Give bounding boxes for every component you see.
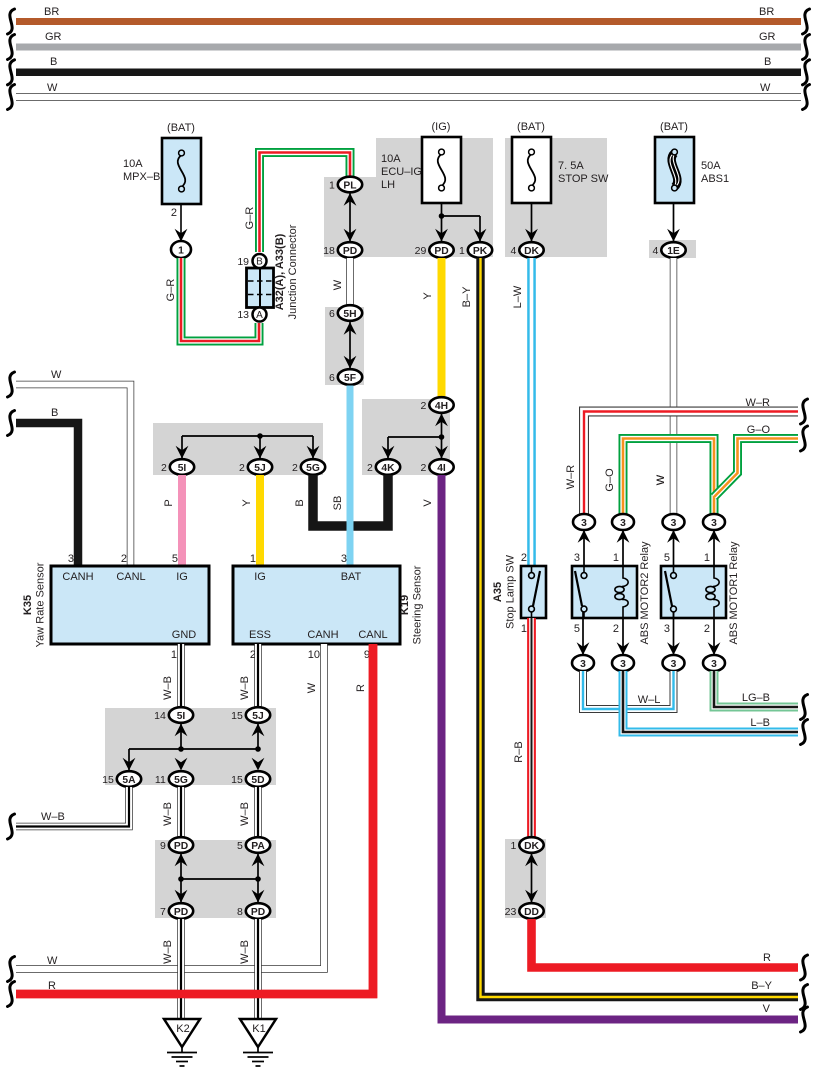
svg-text:B: B bbox=[294, 499, 306, 506]
svg-text:B–Y: B–Y bbox=[461, 286, 473, 307]
gray block PD PA bbox=[155, 840, 276, 918]
svg-text:ESS: ESS bbox=[249, 629, 271, 641]
svg-text:G–O: G–O bbox=[604, 468, 616, 492]
wire 5I-5J-5G internal bbox=[182, 435, 313, 437]
svg-text:1: 1 bbox=[250, 553, 256, 565]
component ABS MOTOR1 Relay bbox=[661, 566, 726, 618]
svg-text:1: 1 bbox=[704, 552, 710, 564]
svg-text:29: 29 bbox=[415, 245, 427, 257]
wire LG-B d right bbox=[714, 671, 798, 707]
gray block ECU-IG bbox=[324, 138, 493, 257]
wire G-R lower bbox=[181, 258, 259, 341]
fuse 10A MPX-B bbox=[162, 138, 201, 204]
arrow into 5H bbox=[344, 322, 357, 335]
svg-text:IG: IG bbox=[176, 571, 188, 583]
svg-text:5: 5 bbox=[574, 623, 580, 635]
svg-text:CANL: CANL bbox=[116, 571, 145, 583]
connector oval 5H bbox=[329, 305, 362, 321]
svg-text:K1: K1 bbox=[252, 1023, 265, 1035]
svg-text:ABS MOTOR1 Relay: ABS MOTOR1 Relay bbox=[728, 541, 740, 645]
wire W 1E down bbox=[670, 258, 678, 514]
svg-text:PD: PD bbox=[434, 246, 448, 257]
svg-text:19: 19 bbox=[237, 256, 249, 268]
svg-text:Steering Sensor: Steering Sensor bbox=[412, 565, 424, 644]
svg-text:PL: PL bbox=[343, 180, 356, 191]
svg-text:3: 3 bbox=[574, 552, 580, 564]
arrow into oval 3 bottom c bbox=[667, 642, 680, 655]
connector oval 5G lower bbox=[155, 771, 193, 787]
svg-text:4K: 4K bbox=[381, 463, 395, 474]
svg-text:W: W bbox=[760, 82, 771, 94]
gray block STOP SW bbox=[505, 138, 607, 257]
svg-text:8: 8 bbox=[237, 906, 243, 918]
arrow into PD 7 bbox=[175, 890, 188, 903]
wire P 5I to IG bbox=[178, 475, 186, 566]
wire W-L a to c bbox=[583, 671, 674, 709]
relay oval 3 bottom a bbox=[572, 655, 594, 671]
svg-text:PA: PA bbox=[251, 841, 265, 852]
svg-text:W: W bbox=[47, 82, 58, 94]
svg-text:G–O: G–O bbox=[747, 424, 771, 436]
wire R CANL down overdraw bbox=[16, 644, 373, 994]
wire fuse STOP SW to DK bbox=[531, 203, 533, 241]
svg-text:3: 3 bbox=[664, 623, 670, 635]
arrow into 4H bbox=[435, 414, 448, 427]
svg-text:3: 3 bbox=[671, 659, 677, 670]
relay oval 3 bottom c bbox=[663, 655, 685, 671]
svg-text:10A: 10A bbox=[123, 158, 143, 170]
svg-text:5: 5 bbox=[172, 553, 178, 565]
ground K2 bbox=[164, 1019, 200, 1066]
svg-text:MPX–B: MPX–B bbox=[123, 171, 160, 183]
wire 5H to 5F bbox=[349, 322, 351, 368]
wire fuse ECU-IG to PD bbox=[441, 203, 443, 241]
svg-text:2: 2 bbox=[521, 552, 527, 564]
squiggle R bottom left bbox=[8, 982, 15, 1007]
svg-text:DD: DD bbox=[524, 907, 539, 918]
svg-text:K19: K19 bbox=[399, 595, 411, 615]
arrow into PL bbox=[344, 193, 357, 206]
bus continuation squiggles left bbox=[8, 9, 15, 110]
wire Y PD29 to 4H bbox=[438, 258, 446, 397]
wire W-B 5A left bbox=[16, 787, 129, 827]
svg-text:R: R bbox=[355, 684, 367, 692]
arrow into connector 1 bbox=[175, 229, 188, 242]
gray block 1E bbox=[649, 240, 696, 258]
svg-text:2: 2 bbox=[704, 623, 710, 635]
squiggle L-B right bbox=[801, 720, 808, 745]
svg-text:LH: LH bbox=[381, 179, 395, 191]
svg-text:5F: 5F bbox=[344, 373, 356, 384]
component ABS MOTOR2 Relay bbox=[572, 566, 637, 618]
svg-text:R–B: R–B bbox=[513, 741, 525, 762]
svg-text:W–B: W–B bbox=[162, 940, 174, 964]
wire W bus bbox=[16, 93, 801, 101]
svg-text:G–R: G–R bbox=[244, 207, 256, 230]
svg-text:ABS1: ABS1 bbox=[701, 173, 729, 185]
gray block 5I 5J 5G bbox=[153, 423, 323, 475]
svg-text:W–R: W–R bbox=[565, 465, 577, 490]
wire PD PA internal bbox=[180, 854, 182, 879]
wire branch to PK bbox=[442, 215, 481, 217]
arrow into oval 3 bottom a bbox=[577, 642, 590, 655]
junction connector pin A bbox=[237, 308, 266, 322]
svg-text:5I: 5I bbox=[178, 463, 187, 474]
ground K1 bbox=[240, 1019, 276, 1066]
connector oval PD 9 bbox=[160, 837, 193, 853]
svg-text:5J: 5J bbox=[252, 711, 264, 722]
K19 pin numbers bbox=[250, 553, 370, 661]
gray block 5H 5F bbox=[325, 307, 364, 385]
wire relay pins up bbox=[583, 531, 585, 572]
svg-text:4I: 4I bbox=[437, 463, 446, 474]
svg-text:3: 3 bbox=[620, 659, 626, 670]
svg-text:3: 3 bbox=[711, 518, 717, 529]
svg-text:DK: DK bbox=[524, 246, 539, 257]
svg-text:PK: PK bbox=[473, 246, 488, 257]
component K19 Steering Sensor bbox=[233, 566, 400, 644]
wire G-O branch right bbox=[714, 439, 798, 498]
arrow into relay oval 3 d bbox=[708, 530, 721, 543]
svg-text:23: 23 bbox=[505, 906, 517, 918]
junction connector pin B bbox=[237, 254, 266, 268]
svg-text:7. 5A: 7. 5A bbox=[558, 160, 584, 172]
wire W PD to 5H bbox=[346, 258, 354, 305]
arrow into 5D bbox=[252, 758, 265, 771]
svg-text:Y: Y bbox=[422, 292, 434, 300]
wire W-B 5D to PA bbox=[254, 787, 262, 837]
svg-text:GR: GR bbox=[45, 31, 62, 43]
svg-text:1: 1 bbox=[613, 552, 619, 564]
arrow into 4K bbox=[382, 446, 395, 459]
arrow into PD 9 bbox=[175, 854, 188, 867]
gray block 4H 4K 4I bbox=[362, 399, 450, 475]
arrow into relay oval 3 a bbox=[578, 530, 591, 543]
squiggle W-R right bbox=[801, 399, 808, 424]
svg-text:B–Y: B–Y bbox=[751, 980, 772, 992]
wire W-B GND to 5I bbox=[177, 644, 185, 707]
svg-text:K2: K2 bbox=[176, 1023, 189, 1035]
connector oval 5J bbox=[239, 459, 272, 475]
wire BR bus bbox=[16, 18, 801, 25]
wire B 5G to 4K bbox=[313, 475, 388, 526]
squiggle B left bbox=[8, 411, 15, 436]
wire relay pins down bbox=[582, 612, 584, 655]
svg-text:V: V bbox=[763, 1003, 771, 1015]
arrow into 5A bbox=[123, 758, 136, 771]
fuse 7.5A STOP SW bbox=[512, 137, 551, 203]
svg-text:PD: PD bbox=[174, 841, 188, 852]
squiggle W bottom left bbox=[8, 957, 15, 982]
wire W-R relay to right bbox=[584, 412, 798, 515]
svg-text:6: 6 bbox=[329, 308, 335, 320]
relay oval 3 top b bbox=[612, 514, 634, 530]
svg-text:3: 3 bbox=[68, 553, 74, 565]
svg-text:18: 18 bbox=[323, 245, 335, 257]
wire L-W DK to stop lamp SW bbox=[527, 258, 536, 566]
svg-text:Y: Y bbox=[241, 499, 253, 507]
wire Y 5J to IG bbox=[256, 475, 264, 566]
svg-text:W–B: W–B bbox=[162, 676, 174, 700]
arrow into relay oval 3 c bbox=[667, 530, 680, 543]
svg-text:GR: GR bbox=[759, 31, 776, 43]
arrow into 1E 4 bbox=[667, 229, 680, 242]
svg-text:B: B bbox=[51, 407, 58, 419]
svg-text:B: B bbox=[764, 56, 771, 68]
wire R-B stop lamp to DK bbox=[527, 618, 536, 837]
connector oval PD 18 bbox=[323, 242, 362, 258]
wire W-B PD7 to K2 bbox=[177, 919, 185, 1019]
arrow into PA 5 bbox=[252, 854, 265, 867]
wire W CANH down bbox=[16, 644, 324, 969]
wire W left to CANL bbox=[16, 385, 131, 567]
svg-text:GND: GND bbox=[172, 629, 197, 641]
svg-text:Yaw Rate Sensor: Yaw Rate Sensor bbox=[35, 562, 47, 647]
svg-text:A32(A), A33(B): A32(A), A33(B) bbox=[274, 233, 286, 310]
arrow into 4I bbox=[435, 446, 448, 459]
svg-text:W: W bbox=[655, 474, 667, 485]
svg-text:2: 2 bbox=[367, 462, 373, 474]
svg-text:W–L: W–L bbox=[638, 694, 661, 706]
arrow into oval 3 bottom b bbox=[617, 642, 630, 655]
svg-text:5A: 5A bbox=[122, 775, 136, 786]
svg-text:15: 15 bbox=[231, 774, 243, 786]
svg-text:15: 15 bbox=[231, 710, 243, 722]
wire fuse MPX-B to connector 1 bbox=[180, 204, 182, 240]
svg-text:3: 3 bbox=[620, 518, 626, 529]
connector oval 5F bbox=[329, 369, 362, 385]
svg-text:1: 1 bbox=[171, 649, 177, 661]
svg-text:(BAT): (BAT) bbox=[660, 121, 688, 133]
svg-text:2: 2 bbox=[613, 623, 619, 635]
svg-text:1: 1 bbox=[521, 623, 527, 635]
arrow into 5G bbox=[307, 446, 320, 459]
svg-text:10: 10 bbox=[308, 649, 320, 661]
svg-text:5: 5 bbox=[664, 552, 670, 564]
MOTOR2 pin numbers bbox=[574, 552, 619, 635]
svg-text:3: 3 bbox=[580, 659, 586, 670]
svg-text:2: 2 bbox=[171, 207, 177, 219]
svg-text:PD: PD bbox=[343, 246, 357, 257]
wire B-Y PK down bbox=[481, 258, 799, 997]
svg-text:V: V bbox=[422, 499, 434, 507]
arrow into DD 23 bbox=[525, 890, 538, 903]
wire W-B PD8 to K1 bbox=[254, 919, 262, 1019]
connector oval 1 bbox=[171, 241, 191, 258]
arrow into DK 1 bbox=[525, 854, 538, 867]
wire 4H internal bbox=[441, 414, 443, 460]
svg-text:2: 2 bbox=[420, 400, 426, 412]
connector oval 5D bbox=[231, 771, 270, 787]
svg-text:14: 14 bbox=[154, 710, 166, 722]
squiggle W-B left bbox=[8, 814, 15, 839]
svg-text:11: 11 bbox=[155, 774, 166, 786]
svg-text:5H: 5H bbox=[343, 309, 356, 320]
svg-text:6: 6 bbox=[329, 372, 335, 384]
svg-text:1: 1 bbox=[510, 840, 516, 852]
svg-text:W: W bbox=[51, 369, 62, 381]
connector oval 4H bbox=[420, 397, 453, 413]
connector oval 4I bbox=[420, 459, 453, 475]
svg-text:1: 1 bbox=[178, 245, 184, 256]
svg-text:CANL: CANL bbox=[358, 629, 387, 641]
connector oval PA 5 bbox=[237, 837, 270, 853]
svg-text:4: 4 bbox=[652, 245, 658, 257]
wire B bus bbox=[16, 69, 801, 77]
wire B left to CANH bbox=[16, 423, 78, 566]
MOTOR1 pin numbers bbox=[664, 552, 710, 635]
connector oval 5A bbox=[102, 771, 141, 787]
bus continuation squiggles right bbox=[803, 9, 810, 110]
connector oval DD 23 bbox=[505, 903, 544, 919]
svg-text:IG: IG bbox=[254, 571, 266, 583]
wire DK to DD bbox=[531, 854, 533, 902]
wire SB 5F to BAT bbox=[347, 386, 354, 567]
arrow into DK 4 bbox=[525, 229, 538, 242]
svg-text:W: W bbox=[332, 279, 344, 290]
relay oval 3 bottom b bbox=[612, 655, 634, 671]
svg-text:W–B: W–B bbox=[162, 802, 174, 826]
svg-text:1E: 1E bbox=[667, 246, 680, 257]
squiggle B-Y right bbox=[801, 985, 808, 1010]
svg-text:5I: 5I bbox=[177, 711, 186, 722]
svg-text:9: 9 bbox=[160, 840, 166, 852]
wire L-B b right bbox=[623, 671, 798, 732]
svg-text:BR: BR bbox=[759, 6, 774, 18]
svg-text:W–B: W–B bbox=[239, 940, 251, 964]
svg-text:5G: 5G bbox=[174, 775, 188, 786]
relay oval 3 top d bbox=[703, 514, 725, 530]
svg-text:W: W bbox=[306, 682, 318, 693]
gray block DK DD bbox=[505, 839, 546, 918]
wire V 4I down bbox=[442, 475, 799, 1020]
wire W-B 5G to PD bbox=[177, 787, 185, 837]
svg-text:1: 1 bbox=[329, 180, 335, 192]
wire GR bus bbox=[16, 44, 801, 51]
svg-text:W–B: W–B bbox=[239, 676, 251, 700]
arrow into PD 8 bbox=[252, 890, 265, 903]
squiggle W left bbox=[8, 372, 15, 397]
wire G-O relay net bbox=[623, 439, 714, 515]
svg-text:4: 4 bbox=[510, 245, 516, 257]
svg-text:2: 2 bbox=[161, 462, 167, 474]
connector oval 5I bbox=[161, 459, 194, 475]
wire 5I 5J internal bbox=[180, 724, 182, 749]
squiggle LG-B right bbox=[801, 695, 808, 720]
svg-text:50A: 50A bbox=[701, 160, 721, 172]
svg-text:BAT: BAT bbox=[341, 571, 362, 583]
wire R CANL down bbox=[16, 644, 373, 994]
svg-text:4H: 4H bbox=[435, 401, 448, 412]
svg-text:R: R bbox=[763, 952, 771, 964]
connector oval 4K bbox=[367, 459, 400, 475]
svg-text:A: A bbox=[256, 310, 263, 321]
wire PL to PD bbox=[349, 193, 351, 241]
svg-text:(BAT): (BAT) bbox=[167, 122, 195, 134]
svg-text:B: B bbox=[256, 257, 263, 268]
svg-text:(IG): (IG) bbox=[432, 121, 451, 133]
connector oval PD 8 bbox=[237, 903, 270, 919]
connector oval 1E 4 bbox=[652, 242, 685, 258]
arrow into 5I bbox=[176, 446, 189, 459]
svg-text:PD: PD bbox=[251, 907, 265, 918]
relay oval 3 top a bbox=[573, 514, 595, 530]
svg-text:K35: K35 bbox=[22, 595, 34, 615]
svg-text:W–R: W–R bbox=[746, 397, 771, 409]
arrow into PK 1 bbox=[474, 229, 487, 242]
arrow into 5G lower bbox=[175, 758, 188, 771]
svg-text:2: 2 bbox=[292, 462, 298, 474]
junction connector A32(A) A33(B) bbox=[247, 268, 274, 308]
arrow into PD 18 bbox=[344, 229, 357, 242]
svg-text:10A: 10A bbox=[381, 153, 401, 165]
connector oval PD 7 bbox=[160, 903, 193, 919]
svg-text:PD: PD bbox=[174, 907, 188, 918]
connector oval 5J lower bbox=[231, 707, 270, 723]
svg-text:A35: A35 bbox=[492, 582, 504, 602]
A35 pin numbers bbox=[521, 552, 527, 635]
connector oval PK 1 bbox=[459, 242, 492, 258]
K35 pin numbers bbox=[68, 553, 178, 661]
connector oval PL bbox=[329, 177, 362, 193]
svg-text:DK: DK bbox=[524, 841, 539, 852]
arrow into PD 29 bbox=[435, 229, 448, 242]
relay oval 3 bottom d bbox=[703, 655, 725, 671]
svg-text:5J: 5J bbox=[254, 463, 266, 474]
fuse 10A ECU-IG LH bbox=[422, 137, 461, 203]
wire W-B ESS to 5J bbox=[254, 644, 262, 707]
svg-text:13: 13 bbox=[237, 309, 249, 321]
svg-text:3: 3 bbox=[711, 659, 717, 670]
gray block 5I 5J 5A 5G 5D bbox=[105, 708, 276, 785]
relay oval 3 top c bbox=[663, 514, 685, 530]
svg-text:L–W: L–W bbox=[512, 285, 524, 308]
svg-text:(BAT): (BAT) bbox=[517, 121, 545, 133]
connector oval 5G bbox=[292, 459, 325, 475]
svg-text:W–B: W–B bbox=[239, 802, 251, 826]
connector oval DK 4 bbox=[510, 242, 543, 258]
svg-text:B: B bbox=[50, 56, 57, 68]
svg-text:LG–B: LG–B bbox=[742, 692, 770, 704]
svg-text:W: W bbox=[47, 955, 58, 967]
svg-text:5G: 5G bbox=[306, 463, 320, 474]
svg-text:CANH: CANH bbox=[307, 629, 338, 641]
component K35 Yaw Rate Sensor bbox=[51, 566, 209, 644]
connector oval PD 29 bbox=[415, 242, 454, 258]
arrow into relay oval 3 b bbox=[617, 530, 630, 543]
wire fuse ABS1 to 1E bbox=[673, 203, 675, 241]
svg-text:15: 15 bbox=[102, 774, 114, 786]
svg-text:L–B: L–B bbox=[750, 717, 770, 729]
arrow into oval 3 bottom d bbox=[708, 642, 721, 655]
svg-text:ABS MOTOR2 Relay: ABS MOTOR2 Relay bbox=[639, 541, 651, 645]
connector oval 5I lower bbox=[154, 707, 193, 723]
svg-text:W–B: W–B bbox=[41, 811, 65, 823]
svg-text:CANH: CANH bbox=[62, 571, 93, 583]
svg-text:ECU–IG: ECU–IG bbox=[381, 166, 422, 178]
svg-text:3: 3 bbox=[341, 553, 347, 565]
svg-text:P: P bbox=[163, 499, 175, 506]
svg-text:2: 2 bbox=[239, 462, 245, 474]
fuse 50A ABS1 bbox=[655, 137, 694, 203]
squiggle R right bbox=[801, 955, 808, 980]
svg-text:1: 1 bbox=[459, 245, 465, 257]
svg-text:2: 2 bbox=[420, 462, 426, 474]
svg-text:5: 5 bbox=[237, 840, 243, 852]
squiggle V right bbox=[801, 1007, 808, 1032]
svg-text:2: 2 bbox=[121, 553, 127, 565]
svg-text:G–R: G–R bbox=[165, 279, 177, 302]
